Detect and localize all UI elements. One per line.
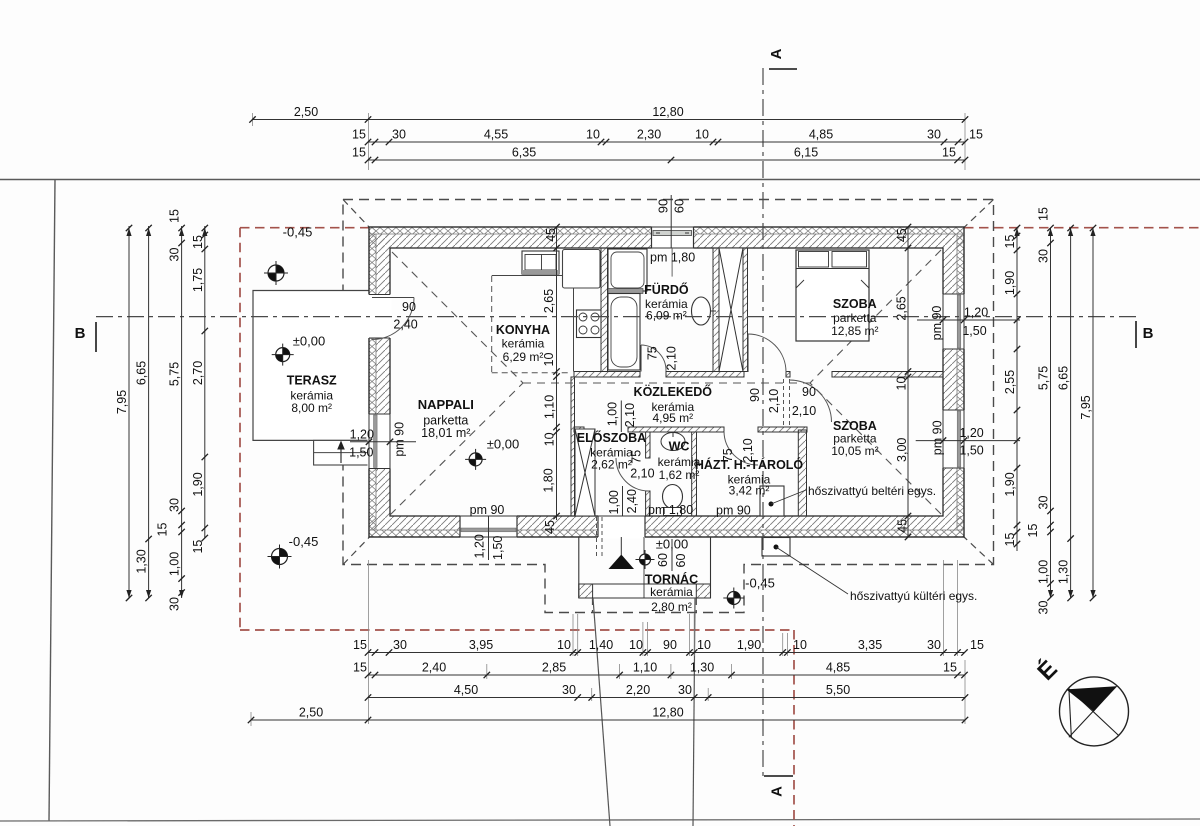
svg-text:hőszivattyú beltéri egys.: hőszivattyú beltéri egys. bbox=[808, 484, 936, 498]
svg-text:1,40: 1,40 bbox=[589, 638, 613, 652]
interior wall közlekedő south b bbox=[628, 427, 724, 432]
svg-text:30: 30 bbox=[168, 597, 182, 611]
svg-text:18,01 m²: 18,01 m² bbox=[421, 426, 470, 440]
svg-text:90: 90 bbox=[402, 300, 416, 314]
dimension row bot2 bbox=[353, 661, 968, 679]
svg-text:10: 10 bbox=[793, 638, 807, 652]
section line A-A bbox=[762, 68, 764, 776]
dimension column right4 bbox=[1079, 225, 1096, 601]
svg-text:30: 30 bbox=[393, 638, 407, 652]
svg-text:4,55: 4,55 bbox=[484, 128, 508, 142]
svg-text:45: 45 bbox=[544, 228, 558, 242]
dimension row top1 bbox=[249, 105, 968, 123]
svg-text:15: 15 bbox=[1026, 524, 1040, 538]
terasz step arrow bbox=[340, 446, 342, 463]
svg-text:4,50: 4,50 bbox=[454, 683, 478, 697]
svg-text:15: 15 bbox=[191, 540, 205, 554]
svg-text:10: 10 bbox=[697, 638, 711, 652]
svg-text:TERASZ: TERASZ bbox=[287, 374, 337, 388]
svg-text:30: 30 bbox=[1037, 496, 1051, 510]
svg-text:NAPPALI: NAPPALI bbox=[418, 397, 474, 412]
svg-text:15: 15 bbox=[352, 146, 366, 160]
dimension column right3 bbox=[1057, 225, 1074, 601]
svg-text:10: 10 bbox=[542, 353, 556, 367]
svg-text:15: 15 bbox=[943, 661, 957, 675]
tornác pillars bbox=[579, 584, 593, 598]
svg-text:30: 30 bbox=[168, 248, 182, 262]
svg-text:A: A bbox=[769, 786, 786, 797]
svg-text:FÜRDŐ: FÜRDŐ bbox=[644, 282, 689, 297]
dimension column left4 bbox=[191, 225, 208, 554]
svg-text:±0,00: ±0,00 bbox=[487, 437, 519, 452]
svg-text:6,65: 6,65 bbox=[135, 361, 149, 385]
exterior wall hatch: left bbox=[369, 227, 376, 537]
svg-text:1,30: 1,30 bbox=[135, 549, 149, 573]
svg-text:HÁZT. H.-TÁROLÓ: HÁZT. H.-TÁROLÓ bbox=[695, 457, 804, 472]
svg-text:5,50: 5,50 bbox=[826, 683, 850, 697]
svg-text:3,35: 3,35 bbox=[858, 638, 882, 652]
door fürdő-közlekedő bbox=[640, 345, 642, 372]
svg-text:2,10: 2,10 bbox=[792, 404, 816, 418]
svg-text:1,20: 1,20 bbox=[473, 534, 487, 558]
svg-text:6,29 m²: 6,29 m² bbox=[503, 350, 544, 364]
door tároló bbox=[724, 431, 758, 465]
svg-text:kerámia: kerámia bbox=[650, 585, 693, 599]
benchmark elevation symbol bbox=[465, 449, 486, 470]
dimension column left3 bbox=[168, 209, 185, 611]
section line B-B bbox=[96, 316, 1136, 318]
entrance door leaf dashed bbox=[597, 517, 603, 558]
interior wall gardrób/szoba1 bbox=[743, 248, 748, 372]
svg-text:5,75: 5,75 bbox=[1037, 366, 1051, 390]
svg-text:ELŐSZOBA: ELŐSZOBA bbox=[577, 430, 646, 445]
svg-text:15: 15 bbox=[1003, 235, 1017, 249]
dimension column right1 bbox=[1003, 225, 1020, 551]
svg-text:1,00: 1,00 bbox=[607, 490, 621, 514]
interior wall konyha/fürdő bbox=[601, 248, 608, 372]
svg-text:60: 60 bbox=[672, 199, 687, 213]
konyha open boundary dashed bbox=[492, 276, 571, 373]
svg-text:1,20: 1,20 bbox=[959, 426, 983, 440]
svg-text:pm 90: pm 90 bbox=[930, 306, 944, 341]
heat pump indoor unit bbox=[760, 486, 784, 516]
top 90/60 dim bbox=[670, 195, 672, 248]
svg-text:30: 30 bbox=[1037, 601, 1051, 615]
svg-text:15: 15 bbox=[1037, 207, 1051, 221]
svg-text:kerámia: kerámia bbox=[502, 337, 545, 351]
svg-text:1,30: 1,30 bbox=[690, 661, 714, 675]
svg-text:±0,00: ±0,00 bbox=[293, 334, 325, 349]
svg-text:30: 30 bbox=[678, 683, 692, 697]
svg-text:75: 75 bbox=[646, 346, 660, 360]
svg-text:12,80: 12,80 bbox=[652, 105, 683, 119]
dimension row bot1 bbox=[353, 638, 984, 656]
exterior wall outlines bbox=[369, 227, 964, 537]
svg-text:pm 90: pm 90 bbox=[716, 504, 751, 518]
svg-text:TORNÁC: TORNÁC bbox=[645, 571, 698, 586]
konyha sink bbox=[522, 251, 559, 274]
svg-text:-0,45: -0,45 bbox=[283, 225, 313, 240]
door leaf+swing terasz bbox=[372, 297, 414, 299]
svg-text:1,90: 1,90 bbox=[191, 472, 205, 496]
entrance arrow triangle bbox=[609, 555, 635, 570]
left window dim bbox=[350, 441, 416, 443]
svg-text:10: 10 bbox=[586, 128, 600, 142]
svg-text:10: 10 bbox=[695, 128, 709, 142]
svg-text:2,40: 2,40 bbox=[422, 661, 446, 675]
svg-text:30: 30 bbox=[392, 128, 406, 142]
exterior wall hatch: bottom bbox=[369, 516, 964, 530]
heat pump outdoor unit bbox=[762, 538, 790, 557]
svg-text:pm 90: pm 90 bbox=[470, 503, 505, 517]
svg-text:15: 15 bbox=[353, 638, 367, 652]
svg-text:10: 10 bbox=[543, 432, 557, 446]
svg-text:2,40: 2,40 bbox=[393, 318, 417, 332]
interior wall szoba1/szoba2 bbox=[832, 372, 943, 378]
svg-text:1,00: 1,00 bbox=[606, 402, 620, 426]
interior wall közlekedő south c bbox=[758, 427, 807, 432]
svg-text:2,85: 2,85 bbox=[542, 661, 566, 675]
svg-text:pm 90: pm 90 bbox=[931, 420, 945, 455]
window: right wall szoba1 bbox=[942, 294, 966, 349]
svg-text:B: B bbox=[75, 325, 86, 342]
svg-text:12,85 m²: 12,85 m² bbox=[831, 324, 878, 338]
svg-text:SZOBA: SZOBA bbox=[833, 297, 877, 311]
fürdő bathtub bbox=[608, 294, 640, 371]
közlekedő door dim bbox=[620, 401, 622, 433]
svg-text:KONYHA: KONYHA bbox=[496, 323, 550, 337]
svg-text:KÖZLEKEDŐ: KÖZLEKEDŐ bbox=[634, 384, 713, 399]
svg-text:30: 30 bbox=[562, 683, 576, 697]
svg-text:1,10: 1,10 bbox=[543, 395, 557, 419]
svg-text:45: 45 bbox=[895, 519, 909, 533]
svg-text:15: 15 bbox=[1003, 533, 1017, 547]
tornác porch bbox=[579, 537, 711, 598]
svg-text:2,30: 2,30 bbox=[637, 128, 661, 142]
svg-text:pm 1,80: pm 1,80 bbox=[648, 503, 693, 517]
door szoba2 sliding dashed bbox=[784, 379, 790, 425]
svg-text:1,20: 1,20 bbox=[350, 428, 374, 442]
svg-text:1,62 m²: 1,62 m² bbox=[659, 468, 700, 482]
svg-text:±0,00: ±0,00 bbox=[656, 537, 688, 552]
benchmark elevation symbol bbox=[272, 344, 294, 366]
svg-text:2,40: 2,40 bbox=[625, 489, 639, 513]
konyha counter bbox=[492, 275, 563, 277]
konyha stove bbox=[577, 310, 602, 338]
svg-text:10: 10 bbox=[629, 638, 643, 652]
svg-text:10,05 m²: 10,05 m² bbox=[831, 444, 878, 458]
svg-text:2,50: 2,50 bbox=[294, 105, 318, 119]
interior wall előszoba/wc a bbox=[646, 432, 650, 458]
door opening: nappali-terasz bbox=[368, 295, 392, 339]
svg-text:6,15: 6,15 bbox=[794, 146, 818, 160]
svg-text:1,00: 1,00 bbox=[1037, 560, 1051, 584]
svg-text:B: B bbox=[1143, 325, 1154, 342]
interior chain konyha x=556.5 bbox=[556, 227, 558, 520]
fürdő window center line bbox=[671, 248, 673, 277]
svg-text:1,30: 1,30 bbox=[1057, 560, 1071, 584]
svg-text:2,10: 2,10 bbox=[665, 346, 679, 370]
interior wall közlekedő north pier bbox=[786, 372, 790, 378]
svg-text:1,50: 1,50 bbox=[959, 444, 983, 458]
svg-text:1,00: 1,00 bbox=[168, 552, 182, 576]
gardrób (built-in wardrobe) fürdő/szoba1 bbox=[719, 248, 743, 372]
page border left bbox=[49, 180, 55, 822]
page border top bbox=[0, 179, 1200, 181]
svg-text:WC: WC bbox=[669, 440, 690, 454]
dimension row bot3 bbox=[365, 683, 968, 701]
benchmark elevation symbol bbox=[636, 550, 655, 569]
door wc bbox=[616, 458, 649, 491]
svg-text:1,90: 1,90 bbox=[1003, 271, 1017, 295]
svg-text:3,42 m²: 3,42 m² bbox=[729, 484, 770, 498]
svg-text:15: 15 bbox=[352, 128, 366, 142]
svg-text:1,50: 1,50 bbox=[349, 446, 373, 460]
svg-text:2,70: 2,70 bbox=[191, 361, 205, 385]
benchmark elevation symbol bbox=[723, 588, 744, 609]
svg-text:hőszivattyú kültéri egys.: hőszivattyú kültéri egys. bbox=[850, 589, 977, 603]
svg-text:15: 15 bbox=[168, 209, 182, 223]
benchmark elevation symbol bbox=[268, 545, 292, 569]
svg-text:1,80: 1,80 bbox=[542, 468, 556, 492]
svg-text:2,55: 2,55 bbox=[1003, 370, 1017, 394]
svg-text:2,10: 2,10 bbox=[630, 467, 654, 481]
terasz steps bbox=[314, 440, 370, 465]
fürdő washing machine bbox=[608, 249, 647, 291]
svg-text:6,65: 6,65 bbox=[1057, 366, 1071, 390]
svg-text:8,00 m²: 8,00 m² bbox=[291, 401, 332, 415]
svg-text:6,35: 6,35 bbox=[512, 146, 536, 160]
svg-text:10: 10 bbox=[557, 638, 571, 652]
terasz outline bbox=[253, 291, 370, 441]
svg-text:2,50: 2,50 bbox=[299, 706, 323, 720]
dimension row bot4 bbox=[248, 706, 968, 724]
svg-text:45: 45 bbox=[895, 228, 909, 242]
svg-text:60: 60 bbox=[674, 554, 688, 568]
svg-text:2,20: 2,20 bbox=[626, 683, 650, 697]
exterior wall hatch: top bbox=[369, 227, 964, 234]
right window1 dim bbox=[917, 319, 1020, 321]
window: bottom wall nappali bbox=[460, 515, 517, 539]
right window2 dim bbox=[916, 440, 1020, 442]
entry door dim bbox=[622, 486, 624, 516]
north arrow bbox=[1032, 655, 1129, 746]
bottom window dim bbox=[488, 516, 490, 560]
svg-text:-0,45: -0,45 bbox=[289, 534, 319, 549]
svg-text:parketta: parketta bbox=[833, 311, 877, 325]
gardrób előszoba bbox=[575, 429, 595, 516]
svg-text:1,20: 1,20 bbox=[964, 306, 988, 320]
svg-text:15: 15 bbox=[942, 146, 956, 160]
svg-text:-0,45: -0,45 bbox=[745, 576, 775, 591]
svg-text:1,10: 1,10 bbox=[633, 661, 657, 675]
interior wall nappali/előszoba bbox=[571, 377, 575, 516]
extension lines bottom bbox=[251, 560, 965, 726]
interior roof hip dashed lines bbox=[390, 250, 941, 515]
svg-text:1,75: 1,75 bbox=[191, 268, 205, 292]
konyha fridge bbox=[563, 250, 601, 289]
svg-text:7,95: 7,95 bbox=[115, 390, 129, 414]
svg-text:30: 30 bbox=[927, 128, 941, 142]
bed szoba1 bbox=[796, 250, 869, 341]
svg-text:4,85: 4,85 bbox=[826, 661, 850, 675]
svg-text:15: 15 bbox=[191, 235, 205, 249]
svg-text:7,95: 7,95 bbox=[1079, 395, 1093, 419]
svg-text:90: 90 bbox=[663, 638, 677, 652]
svg-text:10: 10 bbox=[894, 377, 908, 391]
wc toilet bbox=[663, 485, 683, 509]
svg-text:A: A bbox=[768, 48, 785, 59]
interior wall közlekedő south a bbox=[574, 427, 584, 432]
exterior wall hatch: right bbox=[943, 234, 957, 516]
walkway lines bbox=[593, 598, 610, 826]
svg-text:pm 90: pm 90 bbox=[392, 422, 406, 457]
svg-text:90: 90 bbox=[802, 385, 816, 399]
roof corner hips bbox=[343, 200, 994, 613]
svg-text:6,09 m²: 6,09 m² bbox=[646, 309, 687, 323]
wc basin bbox=[661, 433, 685, 451]
benchmark elevation symbol bbox=[264, 261, 288, 285]
interior wall közlekedő north b bbox=[666, 372, 744, 378]
svg-text:15: 15 bbox=[156, 523, 170, 537]
roof outline dashed rectangle with porch notch bbox=[343, 200, 994, 613]
window: left wall nappali bbox=[368, 414, 392, 469]
svg-text:30: 30 bbox=[1037, 249, 1051, 263]
svg-text:3,95: 3,95 bbox=[469, 638, 493, 652]
fürdő washbasin bbox=[692, 297, 711, 325]
svg-text:90: 90 bbox=[748, 388, 762, 402]
window: right wall szoba2 bbox=[942, 410, 966, 468]
svg-text:90: 90 bbox=[656, 199, 671, 213]
dimension column left1 bbox=[115, 225, 132, 601]
svg-text:2,65: 2,65 bbox=[542, 289, 556, 313]
svg-text:1,50: 1,50 bbox=[491, 536, 505, 560]
page border bottom bbox=[0, 819, 1200, 821]
svg-text:12,80: 12,80 bbox=[652, 706, 683, 720]
tornác 60/60 dim bbox=[671, 539, 673, 571]
interior wall előszoba/wc b bbox=[646, 491, 650, 516]
extension lines top bbox=[253, 113, 966, 170]
dimension column left2 bbox=[135, 225, 152, 601]
svg-text:pm 1,80: pm 1,80 bbox=[650, 251, 695, 265]
interior wall fürdő/gardrób bbox=[713, 248, 719, 372]
interior wall tároló/szoba2 bbox=[798, 430, 806, 516]
svg-text:15: 15 bbox=[969, 128, 983, 142]
svg-text:1,50: 1,50 bbox=[962, 324, 986, 338]
interior wall wc/tároló bbox=[692, 432, 697, 516]
door opening: main entrance bbox=[598, 515, 645, 539]
svg-text:4,95 m²: 4,95 m² bbox=[652, 411, 693, 425]
svg-text:2,10: 2,10 bbox=[767, 389, 781, 413]
svg-text:4,85: 4,85 bbox=[809, 128, 833, 142]
interior chain szoba x=908 bbox=[907, 227, 909, 537]
svg-text:1,90: 1,90 bbox=[737, 638, 761, 652]
svg-text:3,00: 3,00 bbox=[895, 438, 909, 462]
svg-text:1,90: 1,90 bbox=[1003, 472, 1017, 496]
svg-text:45: 45 bbox=[543, 520, 557, 534]
svg-text:15: 15 bbox=[970, 638, 984, 652]
dimension row top3 bbox=[352, 146, 968, 164]
svg-text:2,62 m²: 2,62 m² bbox=[591, 458, 632, 472]
dimension column right2 bbox=[1037, 207, 1054, 614]
svg-text:30: 30 bbox=[168, 498, 182, 512]
svg-text:15: 15 bbox=[353, 661, 367, 675]
svg-text:2,65: 2,65 bbox=[894, 296, 908, 320]
svg-text:60: 60 bbox=[656, 553, 670, 567]
svg-text:2,80 m²: 2,80 m² bbox=[651, 600, 692, 614]
red property boundary dashed bbox=[240, 228, 1200, 826]
dimension chain arrowheads bbox=[126, 228, 1095, 598]
window: fürdő top wall bbox=[652, 226, 694, 250]
door szoba1-közlekedő bbox=[747, 334, 749, 372]
svg-text:5,75: 5,75 bbox=[168, 362, 182, 386]
exterior wall base bbox=[369, 227, 964, 537]
interior wall közlekedő north a bbox=[574, 372, 640, 378]
svg-text:2,10: 2,10 bbox=[623, 403, 637, 427]
svg-text:30: 30 bbox=[927, 638, 941, 652]
dimension row top2 bbox=[352, 128, 983, 146]
